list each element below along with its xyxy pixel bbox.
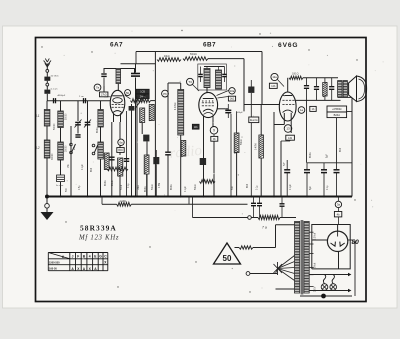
svg-text:Mf 123 KHz: Mf 123 KHz [78,234,119,241]
svg-text:B04A: B04A [104,180,107,186]
svg-text:50 Ohm: 50 Ohm [51,76,59,78]
pilot lamp hooks [323,275,325,284]
svg-text:500pF: 500pF [237,112,244,114]
warning triangle 50 [214,243,241,264]
svg-text:50000: 50000 [54,123,56,130]
wire [135,78,137,197]
svg-text:7a: 7a [96,86,100,90]
wire [218,108,226,110]
svg-text:A: A [62,255,65,259]
wire screen feed [306,100,308,162]
wire [347,83,348,85]
svg-text:+F550Ω: +F550Ω [332,107,341,111]
oscillator coil L7 [116,69,121,84]
svg-text:B04A: B04A [170,184,173,190]
value box 4b [334,212,341,217]
AVC capacitor C17 [248,87,254,93]
svg-text:40kΩ: 40kΩ [164,56,170,58]
tube socket voltage table [48,252,108,254]
svg-text:500kΩ: 500kΩ [190,54,197,56]
mains lead [246,272,250,276]
svg-text:G: G [99,255,102,259]
output transformer T4 primary [338,81,342,98]
screen resistor R9 50k [183,57,208,61]
svg-text:F: F [77,255,79,259]
svg-text:9: 9 [213,129,215,133]
svg-text:1kΩ: 1kΩ [230,98,235,101]
diode load resistor R12 [234,133,239,153]
power transformer T5 core [300,220,302,295]
antenna [46,64,48,70]
wire [103,86,105,92]
power transformer T5 primary winding [295,222,300,294]
capacitor C3 [53,98,55,103]
svg-text:25kΩ: 25kΩ [112,180,114,186]
field coil box [327,106,347,112]
terminal 10a [229,88,235,94]
svg-text:6V6G: 6V6G [278,42,298,49]
svg-text:B04A: B04A [309,152,312,158]
capacitor C6 [131,73,140,75]
filter capacitor C22 [304,169,310,171]
wire [230,114,232,197]
wire [87,101,89,197]
voltage selector starburst [278,256,295,269]
oscillator grid resistor R1 [104,153,109,170]
pilot lamp LP1 [321,284,328,291]
oscillator coil L8 [178,90,184,136]
terminal P6 [162,90,169,97]
tone capacitor C20 [329,86,334,88]
wire input bus [47,100,111,102]
antenna jack J2 [46,83,49,86]
terminal 12a [271,73,278,80]
svg-text:50: 50 [223,254,232,263]
arrester block A2 [44,90,50,94]
tone capacitor C19 [314,86,319,88]
capacitor C4 [83,98,85,103]
svg-text:3a: 3a [337,203,341,207]
pentagrid converter tube V1 6A7 [110,90,125,115]
rectifier tube V4 80 [327,231,347,251]
plate resistor 100ohm [289,76,303,79]
svg-text:17kΩ: 17kΩ [101,94,107,97]
wire cathode [283,121,285,125]
value box 9b [211,136,218,141]
wire [180,135,182,197]
filter capacitor C21 [284,169,290,171]
svg-text:4.07kΩ: 4.07kΩ [175,102,177,110]
svg-text:50kΩ: 50kΩ [152,184,154,190]
wire [131,203,247,205]
wire [136,96,138,197]
lightning arrester block A1 [44,77,50,81]
wire [208,58,244,60]
trimmer capacitor CT1 [75,121,81,123]
capacitor C9 dark [129,106,135,111]
wire IF feed [154,60,156,101]
AVC resistor R4 1M [107,167,128,171]
svg-text:0.47M: 0.47M [256,144,258,150]
terminal 13 [284,125,292,133]
wire [101,197,103,205]
volume potentiometer R2 [131,99,151,103]
wire [121,63,156,65]
wire screen line [296,99,341,101]
svg-text:13: 13 [286,127,290,131]
terminal 6a [118,139,124,145]
capacitor C7 [109,156,115,158]
svg-text:500k: 500k [121,184,123,190]
wire B+ top rail [136,51,262,53]
svg-text:7 a: 7 a [262,226,267,230]
coil L3 [58,111,64,128]
pointer [125,95,131,99]
connector [248,216,252,220]
svg-text:50kΩ: 50kΩ [241,139,243,145]
wire grid line to 6V6G [243,105,245,112]
svg-text:6A7: 6A7 [110,42,123,49]
wire [151,100,156,102]
band switch S1 [70,143,73,146]
svg-text:0.1μF: 0.1μF [185,185,187,192]
svg-text:6B7: 6B7 [203,42,216,49]
IF transformer T2 secondary [216,70,222,89]
resistor R5 [140,108,145,123]
IF transformer T2 can outline [198,64,227,90]
wire [303,77,338,79]
resistor R7 [144,155,149,174]
wire [261,52,263,105]
svg-text:1a: 1a [300,108,304,112]
svg-text:B04: B04 [91,167,93,172]
svg-text:12b: 12b [271,85,276,88]
wire HT loop [312,225,350,269]
svg-text:B04A: B04A [96,127,99,133]
output transformer T4 secondary [343,81,347,98]
wire [307,162,352,164]
value box Rest 1k [249,117,259,123]
duodiode pentode tube V2 6B7 [199,92,218,117]
wire oscillator tank [104,69,116,74]
wire [60,101,62,197]
wire [203,129,205,197]
svg-text:T3: T3 [188,80,192,84]
svg-text:L1: L1 [36,114,40,118]
value box 13b [286,135,295,140]
svg-text:30000: 30000 [52,153,54,160]
IF transformer T2 primary [204,69,210,88]
capacitor C11 dark [153,157,159,164]
resistor R16 1M [117,202,132,206]
centre tap lead [300,295,352,297]
wire [154,101,156,197]
screen resistor box 244A [136,89,149,94]
wire [131,104,133,197]
wire [77,101,79,121]
terminal 1a [298,107,305,114]
cathode resistor R3 [118,158,123,176]
svg-text:B04: B04 [340,147,342,152]
terminal T3 [187,78,194,85]
grid resistor R13 [259,135,264,158]
wire [154,52,156,60]
svg-text:0.5μ: 0.5μ [79,185,81,190]
terminal 5b [125,90,131,96]
svg-text:0.1 am: 0.1 am [51,88,58,90]
capacitor C14 [198,73,203,75]
secondary tap stubs [309,231,313,233]
wire [192,197,194,218]
antenna jack J1 [46,70,49,73]
schematic border frame [36,38,367,302]
coil L5 [98,110,103,128]
value box 1b [310,106,316,111]
svg-text:J: J [72,255,74,259]
svg-text:8μF: 8μF [310,185,312,190]
wire B+ right column [351,98,353,197]
wire [111,122,113,197]
wire [77,125,79,134]
screen resistor R8 40k [157,58,181,62]
svg-text:11b: 11b [194,126,198,129]
value box 11b [192,124,199,129]
wire [276,269,278,274]
scan specks [153,70,154,71]
speaker LS1 [349,76,357,102]
svg-text:A500pF: A500pF [58,94,66,97]
filter capacitor C23 [321,169,327,171]
capacitor C26 pair [257,202,262,204]
svg-text:13b: 13b [288,137,293,140]
wire [204,66,225,68]
svg-text:1500-550: 1500-550 [49,261,60,264]
svg-text:30000: 30000 [66,145,68,152]
coil L2 [44,140,50,158]
IF resistor R11 [200,180,216,184]
pointers [217,91,229,96]
svg-text:B04: B04 [247,183,249,188]
wire [290,121,292,125]
svg-text:1 MΩ: 1 MΩ [120,199,126,203]
fuse squiggle [239,246,253,249]
capacitor C12 [165,151,171,153]
svg-text:0.1μF: 0.1μF [290,183,292,190]
svg-text:1CB: 1CB [140,91,145,94]
svg-text:4: 4 [89,255,91,259]
wire [146,141,148,196]
capacitor C8 [124,158,129,160]
capacitor C13 dark [200,158,206,165]
svg-text:8μF: 8μF [327,153,329,158]
value box 10b [228,96,235,101]
coil L6 oscillator [98,142,103,159]
svg-text:350V: 350V [315,286,317,292]
svg-text:P6: P6 [163,92,167,96]
band switch S2 [92,144,95,147]
svg-text:B24A: B24A [334,113,341,117]
capacitor C27 pair [280,203,285,205]
value box 12b [269,83,277,88]
trimmer capacitor CT2 [75,134,80,136]
wire [337,225,339,232]
wire plate [287,78,289,92]
capacitor C10 [143,135,149,142]
ground symbol [46,199,48,204]
tone capacitor C18 [304,85,309,87]
svg-text:8μF: 8μF [284,162,286,166]
wire [46,72,48,76]
svg-text:0.5M: 0.5M [159,183,161,188]
resistor R6 [149,105,154,121]
svg-text:5e com: 5e com [56,185,63,187]
pilot lamp LP2 [330,284,337,291]
value box 7b [100,92,108,97]
svg-text:10a: 10a [230,89,235,93]
tube V1 pins [113,114,115,123]
coil L4 [58,142,64,160]
svg-text:160-50: 160-50 [49,267,57,270]
svg-text:0.1μ: 0.1μ [128,183,130,188]
wire oscillator column [100,101,102,197]
wire [46,86,48,90]
junction dots on bus [59,195,61,197]
tone resistor R14 [323,83,327,97]
svg-text:0.1μ: 0.1μ [327,185,329,190]
coil L1 [44,110,50,127]
svg-text:6,3Volt: 6,3Volt [314,233,317,240]
svg-text:5Volt: 5Volt [314,263,317,268]
svg-text:2 cm: 2 cm [79,96,84,98]
ground bus [47,196,352,198]
resistor R10 [181,141,186,157]
wire field coil feed [336,118,338,163]
svg-text:50kΩ: 50kΩ [195,184,197,190]
svg-text:50000: 50000 [66,113,68,120]
wire [46,101,48,197]
wire [276,224,295,226]
output tube V3 6V6G [279,92,296,121]
capacitor C5 padder [101,73,106,75]
resistor R15 [251,217,258,219]
bus to rectifier link 3a [335,201,341,207]
terminal 9 [210,127,218,135]
svg-text:0.1μ: 0.1μ [257,185,259,190]
svg-text:12a: 12a [272,75,277,79]
svg-text:6a: 6a [119,141,123,145]
wire [119,122,121,155]
power transformer T5 secondary winding [304,222,309,294]
capacitor C25 pair [251,202,256,204]
pointer [278,80,284,87]
svg-text:B04A: B04A [144,186,147,192]
trimmer capacitor CT3 [85,121,91,123]
wire [206,88,208,94]
terminal 7a [94,84,101,91]
svg-text:58R339A: 58R339A [80,224,117,233]
heater lead 2 [309,290,348,292]
padder trimmer 5a [57,175,65,182]
filter capacitor C24 [334,169,340,171]
wire [117,84,119,94]
value box 6b [117,148,124,153]
heater lead [309,274,348,276]
capacitor C15 [222,73,227,75]
svg-text:0.1μF: 0.1μF [82,163,84,170]
svg-text:5b: 5b [126,91,130,95]
coupling capacitor C16 500pF [225,109,231,111]
svg-text:L2: L2 [36,146,40,150]
svg-text:Rest 1k: Rest 1k [250,119,259,122]
svg-text:100 Ω: 100 Ω [292,73,299,76]
svg-text:1MΩ: 1MΩ [138,185,140,190]
tube V2 pins [203,116,205,129]
svg-text:B04: B04 [118,149,123,152]
wire band switch column [70,126,72,197]
